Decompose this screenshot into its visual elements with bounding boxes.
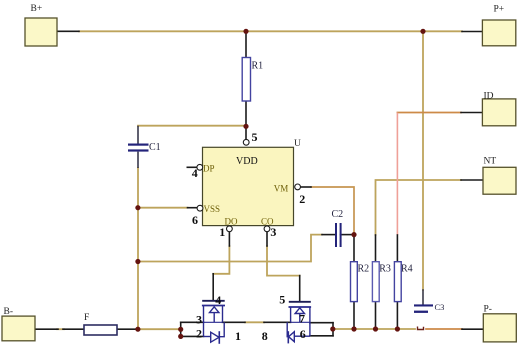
svg-text:DP: DP (203, 163, 215, 173)
svg-text:8: 8 (262, 329, 268, 343)
svg-text:ID: ID (484, 92, 494, 102)
svg-text:VDD: VDD (236, 156, 258, 167)
svg-text:6: 6 (300, 327, 306, 341)
svg-text:5: 5 (252, 130, 258, 144)
svg-text:R1: R1 (252, 61, 264, 72)
svg-text:P-: P- (484, 305, 492, 315)
svg-text:R4: R4 (401, 264, 413, 275)
svg-text:DO: DO (225, 217, 238, 227)
svg-text:C3: C3 (435, 302, 445, 312)
svg-text:U: U (294, 139, 301, 149)
svg-text:VSS: VSS (204, 204, 221, 214)
svg-text:R2: R2 (358, 264, 370, 275)
svg-text:2: 2 (299, 192, 305, 206)
svg-text:NT: NT (484, 157, 497, 167)
svg-text:P+: P+ (494, 5, 505, 15)
svg-text:3: 3 (270, 225, 276, 239)
svg-text:R3: R3 (379, 264, 391, 275)
svg-text:4: 4 (192, 166, 198, 180)
svg-text:4: 4 (215, 293, 221, 307)
svg-text:5: 5 (279, 292, 285, 306)
svg-text:2: 2 (196, 327, 202, 341)
svg-text:C2: C2 (332, 209, 344, 220)
svg-text:1: 1 (235, 329, 241, 343)
svg-text:1: 1 (219, 225, 225, 239)
svg-text:B+: B+ (31, 4, 43, 14)
svg-text:B-: B- (4, 307, 14, 317)
svg-text:6: 6 (192, 213, 198, 227)
svg-text:C1: C1 (149, 142, 161, 153)
svg-text:7: 7 (299, 311, 305, 325)
svg-text:F: F (84, 313, 89, 323)
svg-text:3: 3 (196, 313, 202, 327)
svg-text:VM: VM (274, 184, 289, 194)
